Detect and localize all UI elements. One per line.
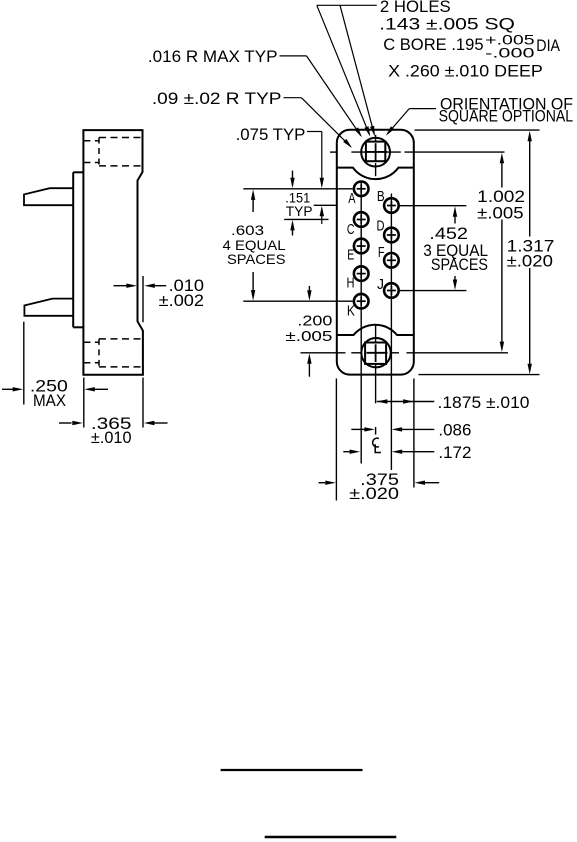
- dimension .075 TYP (row offset) with leader: [236, 126, 324, 224]
- hole letter D: [377, 218, 385, 234]
- extension line at hole B level (right): [399, 205, 467, 207]
- svg-text:±.020: ±.020: [349, 485, 399, 503]
- svg-text:MAX: MAX: [33, 392, 66, 410]
- dimension .375 +/-.020 (body width): [319, 471, 440, 503]
- svg-text:X .260 ±.010 DEEP: X .260 ±.010 DEEP: [388, 62, 543, 81]
- note ORIENTATION OF SQUARE OPTIONAL with leader: [386, 95, 573, 136]
- border line (bottom of figure): [221, 769, 363, 771]
- terminal hole F: [384, 253, 399, 268]
- svg-text:H: H: [347, 276, 355, 292]
- svg-text:-.000: -.000: [485, 45, 535, 61]
- side view: relay body outline with .010 step on right face: [83, 130, 142, 375]
- dimension .151 TYP (hole pitch): [285, 171, 312, 236]
- dimension .452 / 3 EQUAL SPACES: [423, 206, 488, 290]
- top mounting hole: counterbore circle: [361, 138, 390, 167]
- svg-text:.075 TYP: .075 TYP: [236, 126, 306, 144]
- terminal hole J: [384, 283, 399, 298]
- top mounting hole: center cross: [367, 143, 388, 161]
- svg-text:DIA: DIA: [536, 36, 560, 55]
- bottom mounting hole: centerlines: [301, 326, 509, 435]
- svg-text:K: K: [347, 304, 355, 320]
- hole letter A: [348, 191, 355, 207]
- svg-text:.172: .172: [438, 444, 471, 462]
- svg-text:±.010: ±.010: [91, 429, 132, 447]
- border line (page bottom): [265, 836, 397, 838]
- hole letter C: [347, 222, 355, 238]
- dimension .1875 +/-.010 (centerline to edge): [377, 394, 530, 412]
- hole letter H: [347, 276, 355, 292]
- side view: hidden mounting-hole bore (bottom, dashed): [83, 339, 142, 367]
- svg-text:SQUARE OPTIONAL: SQUARE OPTIONAL: [439, 108, 573, 126]
- svg-text:B: B: [377, 189, 385, 205]
- note 2 HOLES .143 SQ C BORE with leaders to mounting hole: [317, 0, 561, 137]
- dimension .603 / 4 EQUAL SPACES: [223, 189, 286, 300]
- extension line at hole C level: [284, 218, 328, 220]
- extension line below body left edge: [335, 379, 337, 501]
- dimension .086 (centerline to hole column): [351, 422, 471, 440]
- extension line at hole B level (left stub): [314, 204, 337, 206]
- hole letter F: [378, 245, 385, 261]
- hole letter K: [347, 304, 355, 320]
- terminal hole C: [354, 212, 369, 227]
- svg-text:.603: .603: [231, 222, 264, 238]
- svg-text:±.005: ±.005: [477, 204, 523, 223]
- extension line at hole A level: [243, 188, 352, 190]
- terminal hole E: [354, 239, 369, 254]
- extension line below body right edge: [413, 379, 415, 488]
- side view: hidden mounting-hole bore (top, dashed): [83, 138, 142, 166]
- dimension .250 MAX (pin length): [2, 322, 108, 410]
- dimension .365 +/-.010 (body thickness): [59, 378, 168, 448]
- dimension .200 +/-.005 (hole K to bottom hole): [285, 286, 332, 377]
- extension line at hole K level: [243, 300, 352, 302]
- bottom mounting hole: square broach: [365, 343, 386, 364]
- terminal hole A: [354, 182, 369, 197]
- extension line at body top (right): [415, 129, 540, 131]
- svg-text:TYP: TYP: [286, 204, 313, 219]
- front view: body outline (rounded rectangle): [337, 130, 414, 375]
- svg-text:C BORE .195: C BORE .195: [383, 35, 483, 54]
- right hole-column centerline: [390, 194, 392, 471]
- extension line at hole J level (right): [399, 290, 467, 292]
- note .016 R MAX TYP with leader to square corner: [148, 47, 362, 137]
- side view: mounting flange: [73, 172, 83, 327]
- extension line at body bottom (right): [419, 374, 540, 376]
- hole letter B: [377, 189, 385, 205]
- front view: scallop recess line around top mounting hole: [337, 168, 414, 180]
- svg-text:E: E: [347, 248, 354, 264]
- svg-text:.09 ±.02 R TYP: .09 ±.02 R TYP: [152, 89, 282, 108]
- terminal hole D: [384, 228, 399, 243]
- bottom mounting hole: center cross: [367, 344, 388, 362]
- svg-text:SPACES: SPACES: [431, 255, 488, 274]
- svg-text:D: D: [377, 218, 385, 234]
- dimension .010 +/-.002 (step depth): [114, 276, 205, 322]
- centerline symbol: [373, 438, 381, 452]
- svg-text:A: A: [348, 191, 355, 207]
- svg-text:SPACES: SPACES: [227, 251, 286, 267]
- bottom mounting hole: counterbore circle: [361, 338, 390, 367]
- front view: scallop recess line around bottom mounting hole: [337, 325, 414, 335]
- note .09 +/-.02 R TYP with leader to corner radius: [152, 89, 352, 148]
- svg-text:±.020: ±.020: [507, 251, 553, 270]
- side view: terminal pin (top): [24, 188, 73, 205]
- terminal hole H: [354, 266, 369, 281]
- svg-text:.086: .086: [438, 422, 471, 440]
- dimension 1.002 +/-.005 (hole centers): [477, 153, 525, 352]
- left hole-column centerline: [360, 181, 362, 463]
- side view: terminal pin (bottom): [24, 299, 73, 316]
- dimension .172 (hole column spacing): [343, 444, 471, 462]
- svg-text:F: F: [378, 245, 385, 261]
- hole letter J: [377, 277, 384, 293]
- svg-text:.1875 ±.010: .1875 ±.010: [438, 394, 530, 412]
- terminal hole B: [384, 198, 399, 213]
- svg-text:J: J: [377, 277, 384, 293]
- svg-text:C: C: [347, 222, 355, 238]
- svg-text:±.002: ±.002: [159, 292, 204, 310]
- top mounting hole: square broach: [366, 142, 385, 162]
- top mounting hole: centerlines: [330, 135, 505, 176]
- svg-text:±.005: ±.005: [285, 328, 332, 345]
- dimension 1.317 +/-.020 (body length): [507, 131, 555, 374]
- terminal hole K: [354, 294, 369, 309]
- svg-text:.016 R MAX TYP: .016 R MAX TYP: [148, 47, 278, 66]
- hole letter E: [347, 248, 354, 264]
